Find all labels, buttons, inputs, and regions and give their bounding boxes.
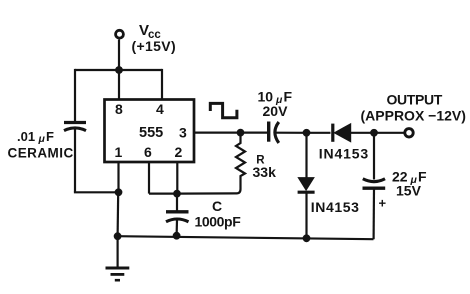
wire pin 6 drop <box>148 162 150 194</box>
node C2 ground junction <box>173 232 181 240</box>
svg-text:33k: 33k <box>253 164 277 180</box>
wire pin 3 output <box>194 132 241 134</box>
capacitor C4 22uF <box>363 179 386 188</box>
node pin1 junction <box>115 188 123 196</box>
capacitor C3 10uF <box>269 122 279 143</box>
wire pin 4 drop <box>161 69 163 100</box>
wire D1 to output node <box>351 132 374 134</box>
diode D2 1N4153 shunt <box>298 178 315 192</box>
wire pin 2 drop <box>176 162 178 194</box>
wire Vcc stem <box>118 40 120 71</box>
label Vcc <box>139 22 161 41</box>
node A junction <box>303 129 311 137</box>
wire bottom ground rail <box>117 236 374 239</box>
svg-text:1: 1 <box>115 144 123 160</box>
terminal Vcc <box>116 30 124 38</box>
svg-text:4: 4 <box>156 101 164 117</box>
wire C3 to node A <box>277 132 307 134</box>
wire C2 top lead <box>176 194 178 211</box>
node Vcc junction <box>115 66 123 74</box>
svg-text:CERAMIC: CERAMIC <box>8 146 74 161</box>
ground <box>106 268 130 280</box>
wire C4 bottom lead <box>373 188 376 239</box>
svg-text:555: 555 <box>139 125 163 141</box>
wire pin 8 drop <box>118 70 120 100</box>
capacitor C1 .01uF ceramic <box>64 123 86 131</box>
diode D1 1N4153 series <box>333 124 351 142</box>
svg-text:2: 2 <box>175 144 183 160</box>
svg-text:1000pF: 1000pF <box>195 214 242 230</box>
label 10 uF <box>258 89 293 107</box>
node ground rail junction <box>114 232 122 240</box>
wire pin1 node to ground rail <box>116 192 119 236</box>
svg-text:20V: 20V <box>263 103 289 119</box>
wire ground stem <box>116 236 118 267</box>
svg-text:IN4153: IN4153 <box>311 199 360 215</box>
wire C4 top lead <box>373 133 375 180</box>
svg-text:+: + <box>379 196 387 211</box>
wire top rail <box>75 69 162 71</box>
svg-text:C: C <box>212 198 222 214</box>
svg-text:F: F <box>46 129 54 144</box>
waveform symbol square wave <box>210 103 237 117</box>
terminal OUTPUT <box>405 129 413 137</box>
capacitor C2 1000pF <box>166 212 189 222</box>
svg-text:IN4153: IN4153 <box>319 146 369 162</box>
svg-text:μ: μ <box>38 133 46 145</box>
label 22 uF <box>392 169 427 187</box>
node pin3 junction <box>237 129 245 137</box>
wire node A to D2 <box>305 133 307 178</box>
wire C2 bottom lead <box>176 220 179 236</box>
wire C1 bottom lead <box>74 129 76 193</box>
wire to output terminal <box>374 132 404 134</box>
wire pin3 node to C3 <box>241 132 268 134</box>
node D2 ground junction <box>303 234 311 242</box>
wire to C1 top <box>74 69 76 122</box>
node output junction <box>370 129 378 137</box>
IC U1 555 timer <box>105 100 195 163</box>
svg-text:(+15V): (+15V) <box>132 38 177 54</box>
wire pin6 to pin2 node <box>149 193 177 195</box>
svg-text:15V: 15V <box>396 183 422 199</box>
svg-text:3: 3 <box>179 125 187 141</box>
wire C1 to pin1 node <box>74 191 119 193</box>
svg-text:OUTPUT: OUTPUT <box>387 92 443 108</box>
svg-text:8: 8 <box>115 101 123 117</box>
wire node A to D1 <box>307 132 331 134</box>
svg-text:6: 6 <box>144 144 152 160</box>
wire D2 to ground rail <box>305 192 307 238</box>
node pin2 junction <box>173 190 181 198</box>
resistor R 33k <box>177 133 245 194</box>
wire pin 1 drop <box>117 162 119 192</box>
svg-text:(APPROX −12V): (APPROX −12V) <box>361 108 466 124</box>
label .01 uF <box>17 129 54 145</box>
svg-text:.01: .01 <box>17 129 35 144</box>
